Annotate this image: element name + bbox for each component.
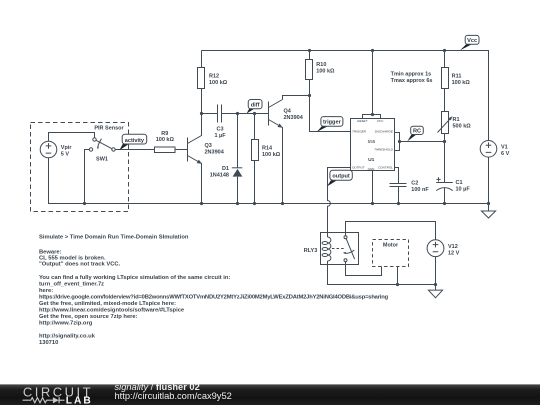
node R14 ground: [253, 202, 256, 205]
footer bar: [0, 384, 540, 405]
svg-text:R14: R14: [262, 146, 273, 152]
node RC at U1: [398, 140, 401, 143]
flag Vcc: [460, 35, 479, 50]
switch SW1: [89, 138, 115, 163]
svg-text:130710: 130710: [39, 340, 58, 346]
node Q4 emitter ground: [281, 202, 284, 205]
svg-text:500 kΩ: 500 kΩ: [453, 124, 472, 130]
wire ground rail: [49, 158, 489, 204]
wire R9 to Q3 base: [175, 149, 188, 151]
svg-text:Get the free, unlimited, mixed: Get the free, unlimited, mixed-mode LTsp…: [39, 301, 176, 307]
wire relay NO contact to motor: [346, 262, 382, 276]
wire SW1 common to R9: [115, 149, 154, 151]
wire U1 DISCHARGE-THRESHOLD tie: [395, 133, 400, 151]
annotation simulation notes: [39, 235, 389, 346]
svg-text:PIR Sensor: PIR Sensor: [94, 125, 124, 131]
wire U1 OUTPUT down with hop over ground rail: [328, 168, 351, 238]
svg-text:2N3904: 2N3904: [284, 115, 304, 121]
resistor R11: [442, 51, 471, 112]
voltage source Vpir: [40, 141, 72, 158]
svg-text:6 V: 6 V: [501, 151, 510, 157]
capacitor C2: [390, 181, 430, 204]
svg-text:10 µF: 10 µF: [456, 187, 471, 193]
wire relay common to V12: [346, 222, 436, 240]
svg-text:GND: GND: [368, 167, 376, 171]
node C1 ground: [443, 202, 446, 205]
svg-text:You can find a fully working L: You can find a fully working LTspice sim…: [39, 275, 230, 281]
svg-text:Simulate > Time Domain Run Tim: Simulate > Time Domain Run Time-Domain S…: [39, 235, 189, 241]
flag activity: [119, 134, 146, 150]
flag trigger: [317, 117, 343, 132]
wire U1 GND to ground: [372, 171, 374, 204]
svg-text:turn_off_event_timer.7z: turn_off_event_timer.7z: [39, 281, 104, 287]
wire C3 to Q4 base: [238, 113, 269, 115]
svg-text:RLY3: RLY3: [304, 248, 318, 254]
svg-text:R10: R10: [316, 62, 326, 68]
svg-text:100 kΩ: 100 kΩ: [209, 80, 228, 86]
wire U1 RESET-VCC tie: [363, 115, 381, 119]
transistor Q3: [188, 114, 225, 204]
svg-text:RESET: RESET: [357, 119, 368, 123]
node V1 ground: [487, 202, 490, 205]
svg-text:LAB: LAB: [66, 396, 93, 405]
svg-text:DISCHARGE: DISCHARGE: [375, 130, 394, 134]
svg-text:5 V: 5 V: [61, 151, 70, 157]
wire SW1 lower throw to ground: [85, 150, 90, 204]
diode D1: [210, 114, 243, 204]
CircuitLab logo: [23, 384, 94, 405]
transistor Q4: [269, 100, 304, 204]
node Q3 emitter ground: [200, 202, 203, 205]
flag diff: [247, 100, 262, 114]
node U1 supply tie: [371, 113, 374, 116]
svg-text:100 kΩ: 100 kΩ: [316, 69, 335, 75]
svg-text:C2: C2: [411, 181, 418, 187]
wire Vcc top rail: [202, 51, 489, 141]
voltage source V12: [427, 240, 460, 285]
svg-text:trigger: trigger: [323, 120, 342, 126]
555 timer U1: [351, 119, 395, 172]
svg-text:RC: RC: [413, 129, 421, 135]
svg-text:http://www.7zip.org: http://www.7zip.org: [39, 320, 93, 326]
svg-text:100 kΩ: 100 kΩ: [156, 137, 175, 143]
motor M: [373, 240, 409, 285]
node R12-C3-Q3 junction: [200, 112, 203, 115]
svg-text:activity: activity: [125, 138, 145, 144]
resistor R9: [155, 131, 176, 153]
svg-text:12 V: 12 V: [448, 250, 460, 256]
svg-text:100 kΩ: 100 kΩ: [452, 80, 471, 86]
wire Q4 collector to R10: [283, 96, 310, 100]
svg-text:CONTROL: CONTROL: [378, 165, 393, 169]
resistor R10: [306, 51, 336, 96]
svg-text:SW1: SW1: [96, 157, 108, 163]
svg-text:C1: C1: [456, 180, 463, 186]
svg-text:Tmin approx 1s: Tmin approx 1s: [391, 71, 432, 77]
resistor R14: [252, 114, 281, 204]
svg-text:http://circuitlab.com/cax9y52: http://circuitlab.com/cax9y52: [115, 391, 232, 401]
svg-text:Vpir: Vpir: [61, 145, 73, 151]
rheostat R1: [438, 112, 472, 142]
node R11 top: [443, 49, 446, 52]
svg-text:TRIGGER: TRIGGER: [352, 130, 367, 134]
ground main: [481, 204, 495, 219]
annotation Tmin Tmax: [391, 71, 433, 84]
svg-text:D1: D1: [222, 166, 229, 172]
svg-text:THRESHOLD: THRESHOLD: [374, 148, 394, 152]
svg-text:C3: C3: [216, 126, 223, 132]
wire U1 CONTROL to C2: [395, 168, 399, 184]
svg-text:Q3: Q3: [205, 143, 212, 149]
svg-text:https://drive.google.com/folde: https://drive.google.com/folderview?id=0…: [39, 294, 389, 300]
svg-text:R12: R12: [209, 74, 219, 80]
flag output: [327, 170, 352, 186]
voltage source V1: [480, 141, 509, 204]
wire relay coil to bottom rail: [328, 261, 436, 285]
node SW1 ground junction: [83, 202, 86, 205]
PIR Sensor enclosure: [31, 123, 129, 212]
node U1 Vcc rail: [371, 49, 374, 52]
capacitor C1: [436, 142, 470, 204]
wire Vpir positive to SW1: [49, 133, 95, 142]
footer text: [115, 382, 232, 401]
svg-text:OUTPUT: OUTPUT: [352, 165, 366, 169]
node R10 top: [308, 49, 311, 52]
svg-text:VCC: VCC: [377, 119, 384, 123]
svg-text:V1: V1: [501, 144, 508, 150]
svg-text:555: 555: [368, 139, 376, 144]
wire trigger node to U1 TRIGGER: [310, 96, 351, 132]
node RC at R1: [443, 140, 446, 143]
resistor R12: [198, 51, 228, 114]
svg-text:R1: R1: [453, 117, 460, 123]
svg-text:V12: V12: [448, 244, 458, 250]
svg-text:U1: U1: [368, 157, 375, 163]
svg-text:Get the free, open source 7zip: Get the free, open source 7zip here:: [39, 314, 138, 320]
svg-text:2N3904: 2N3904: [205, 150, 225, 156]
svg-text:Tmax approx 6s: Tmax approx 6s: [391, 78, 433, 84]
svg-text:Q4: Q4: [284, 109, 292, 115]
wire RC node to R1: [400, 141, 445, 143]
svg-text:output: output: [332, 174, 350, 180]
svg-text:"Output" does not track VCC.: "Output" does not track VCC.: [39, 261, 121, 267]
svg-text:Vcc: Vcc: [467, 38, 477, 44]
svg-text:Motor: Motor: [383, 243, 399, 249]
svg-text:http://signality.co.uk: http://signality.co.uk: [39, 333, 96, 339]
node C2 ground: [397, 202, 400, 205]
node motor ground: [396, 283, 399, 286]
node D1 top: [236, 112, 239, 115]
node D1 ground: [236, 202, 239, 205]
node U1 GND ground: [371, 202, 374, 205]
flag RC: [407, 126, 423, 141]
node V12 bottom: [434, 283, 437, 286]
node trigger junction: [308, 94, 311, 97]
relay RLY3: [304, 233, 359, 265]
svg-text:1N4148: 1N4148: [210, 173, 229, 179]
svg-text:R11: R11: [452, 74, 462, 80]
svg-text:http://www.linear.com/designto: http://www.linear.com/designtools/softwa…: [39, 307, 185, 313]
svg-text:here:: here:: [39, 288, 53, 294]
wire Vcc supply to U1: [372, 51, 374, 115]
capacitor C3: [202, 105, 238, 139]
svg-text:100 nF: 100 nF: [411, 187, 429, 193]
svg-text:1 µF: 1 µF: [214, 133, 226, 139]
svg-text:diff: diff: [251, 102, 260, 108]
node R14 top: [253, 112, 256, 115]
ground V12: [428, 285, 442, 298]
svg-text:100 kΩ: 100 kΩ: [262, 152, 281, 158]
